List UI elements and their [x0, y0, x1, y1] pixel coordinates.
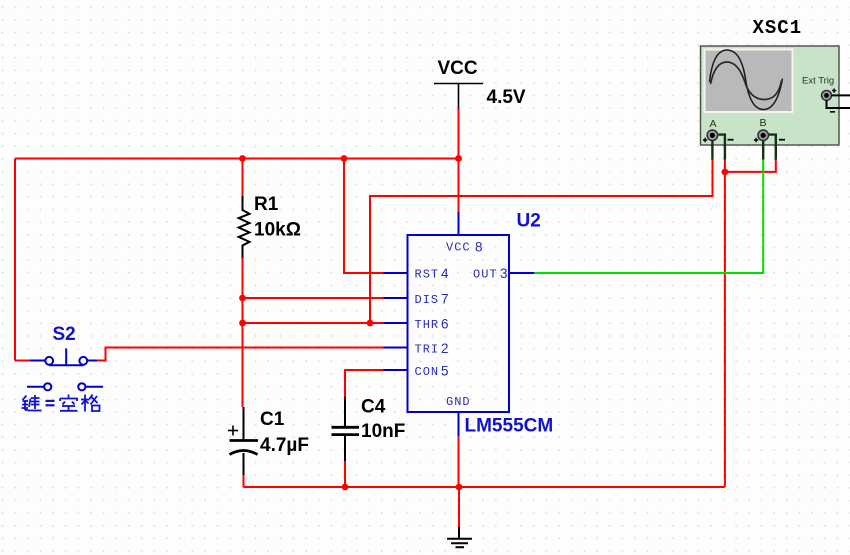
svg-text:TRI: TRI — [415, 343, 440, 357]
wire CON to C4 — [345, 370, 384, 397]
svg-text:XSC1: XSC1 — [753, 17, 803, 39]
pin 7 DIS stub — [384, 297, 408, 299]
wire scope B green to OUT — [534, 159, 763, 273]
svg-text:VCC: VCC — [446, 241, 471, 255]
svg-text:C1: C1 — [260, 409, 285, 430]
svg-text:Ext Trig: Ext Trig — [802, 76, 834, 87]
junction GND/rail — [456, 484, 463, 491]
svg-text:OUT: OUT — [473, 268, 498, 282]
junction scope minus — [722, 169, 729, 176]
svg-text:4: 4 — [441, 266, 449, 281]
wire GND lead red — [458, 436, 460, 487]
wire C4 bottom to rail — [344, 461, 346, 487]
svg-text:C4: C4 — [361, 397, 386, 418]
key caption: 键 = 空格 — [22, 395, 42, 411]
junction THR node — [239, 320, 246, 327]
connector Ext Trig — [822, 88, 850, 112]
wire VCC source lead red — [458, 109, 460, 213]
connector B — [754, 130, 785, 160]
wire scope minus drop — [724, 159, 726, 487]
wire scope A probe to THR node — [370, 159, 713, 323]
svg-text:3: 3 — [500, 266, 508, 281]
switch S2 — [30, 349, 97, 366]
svg-text:LM555CM: LM555CM — [465, 416, 554, 437]
wire S2 to TRI pin — [97, 348, 384, 361]
wire RST to rail — [344, 159, 384, 274]
wire scope A- to B- link — [725, 159, 776, 172]
VCC supply symbol — [434, 84, 483, 109]
junction THR/scope A — [367, 320, 374, 327]
wire R1 bottom to C1 top — [242, 258, 244, 407]
svg-text:5: 5 — [441, 364, 449, 379]
op-amp U2 body (LM555CM box) — [408, 235, 510, 412]
capacitor C4 — [332, 397, 360, 461]
junction rail/R1 — [239, 155, 246, 162]
svg-text:VCC: VCC — [438, 58, 478, 79]
svg-text:R1: R1 — [254, 194, 279, 215]
wire bottom ground rail — [244, 486, 725, 488]
svg-text:2: 2 — [441, 341, 449, 356]
svg-text:THR: THR — [415, 318, 440, 332]
svg-text:8: 8 — [475, 240, 483, 255]
svg-text:DIS: DIS — [415, 293, 440, 307]
svg-text:10nF: 10nF — [361, 421, 405, 442]
wire left drop to switch — [14, 159, 16, 361]
pin 1 GND stub — [458, 412, 460, 436]
svg-text:CON: CON — [415, 365, 440, 379]
connector A — [703, 130, 734, 160]
svg-text:RST: RST — [415, 268, 440, 282]
svg-text:10kΩ: 10kΩ — [254, 220, 301, 241]
wire C1 bottom to rail — [243, 475, 245, 487]
wire VCC top rail — [15, 158, 459, 160]
svg-text:4.5V: 4.5V — [487, 87, 526, 108]
svg-text:S2: S2 — [53, 324, 76, 345]
junction rail/VCC — [455, 155, 462, 162]
junction DIS node — [239, 295, 246, 302]
pin 2 TRI stub — [384, 347, 408, 349]
wire R1 top lead from rail — [242, 159, 244, 197]
svg-text:A: A — [710, 118, 717, 130]
wire ground stub below rail — [458, 487, 460, 527]
pin 3 OUT stub — [509, 272, 534, 274]
svg-text:7: 7 — [441, 292, 449, 307]
junction rail/RST — [341, 155, 348, 162]
svg-text:4.7µF: 4.7µF — [260, 435, 309, 456]
svg-text:6: 6 — [441, 317, 449, 332]
pin 6 THR stub — [384, 322, 408, 324]
pin 5 CON stub — [384, 369, 408, 371]
wire THR connection — [243, 322, 384, 324]
wire S2 left lead — [15, 360, 30, 362]
pin 4 RST stub — [384, 272, 408, 274]
resistor R1 — [239, 196, 250, 258]
capacitor C1 (polarized) — [228, 407, 258, 475]
svg-text:GND: GND — [446, 395, 471, 409]
ground — [447, 527, 472, 547]
junction C4/rail — [342, 484, 349, 491]
oscilloscope XSC1 — [701, 46, 840, 145]
wire DIS connection — [243, 297, 384, 299]
svg-text:U2: U2 — [517, 211, 541, 232]
svg-text:B: B — [760, 117, 767, 129]
key symbol — [27, 383, 103, 390]
pin 8 VCC stub — [458, 212, 460, 235]
